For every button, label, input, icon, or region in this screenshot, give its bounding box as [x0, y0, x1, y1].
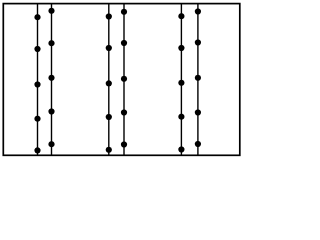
bead L1-4 — [34, 116, 40, 122]
bead L6-1 — [195, 8, 201, 14]
bead L1-1 — [34, 14, 40, 20]
bead L3-2 — [106, 45, 112, 51]
bead L2-2 — [48, 40, 54, 46]
bead L5-3 — [178, 80, 184, 86]
bead L4-3 — [121, 76, 127, 82]
bead L2-5 — [48, 141, 54, 147]
chain line L3 — [108, 4, 110, 156]
bead L6-4 — [195, 109, 201, 115]
bead L3-1 — [106, 13, 112, 19]
chain line L2 — [51, 4, 53, 156]
bead L4-5 — [121, 141, 127, 147]
chain line L6 — [197, 4, 199, 156]
bead L5-4 — [178, 114, 184, 120]
bead L1-3 — [34, 81, 40, 87]
bead L4-1 — [121, 9, 127, 15]
bead L5-2 — [178, 45, 184, 51]
bead L3-4 — [106, 114, 112, 120]
chain line L5 — [180, 4, 182, 156]
bead L2-4 — [48, 108, 54, 114]
chain line L4 — [123, 4, 125, 156]
bead L6-2 — [195, 39, 201, 45]
bead L5-5 — [178, 146, 184, 152]
bead L1-5 — [34, 147, 40, 153]
bead L4-2 — [121, 40, 127, 46]
bead L6-3 — [195, 75, 201, 81]
chain line L1 — [37, 4, 39, 156]
bead L3-3 — [106, 80, 112, 86]
bead L6-5 — [195, 141, 201, 147]
bead L5-1 — [178, 13, 184, 19]
bead L2-3 — [48, 75, 54, 81]
bead L2-1 — [48, 8, 54, 14]
bead L1-2 — [34, 46, 40, 52]
bead L4-4 — [121, 109, 127, 115]
bead L3-5 — [106, 147, 112, 153]
